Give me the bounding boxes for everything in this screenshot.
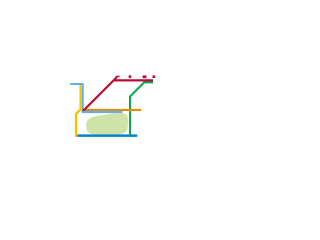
light blue line lower horizontal: [82, 111, 123, 113]
transit map figure: [0, 0, 160, 160]
crimson dash dot 3: [153, 75, 156, 78]
park green area: [86, 113, 128, 134]
green line: [130, 82, 153, 135]
crimson diagonal line: [82, 77, 116, 111]
dark blue line: [76, 134, 137, 137]
orange line: [82, 109, 141, 111]
crimson dash dot 1: [129, 75, 132, 78]
light blue line: [70, 84, 83, 112]
crimson dash at diagonal tip: [116, 76, 120, 78]
crimson dash dot 2: [143, 75, 147, 78]
crimson horizontal line: [113, 79, 153, 81]
yellow line: [76, 85, 81, 137]
